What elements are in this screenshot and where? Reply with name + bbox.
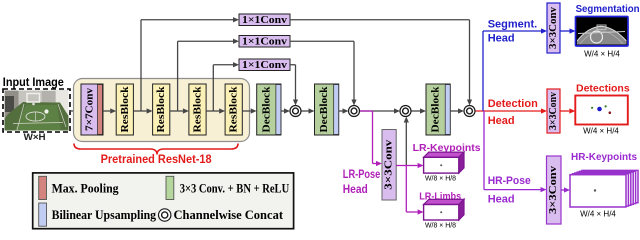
svg-text:W/4 × H/4: W/4 × H/4 — [580, 210, 616, 219]
svg-text:DecBlock: DecBlock — [318, 86, 330, 133]
svg-text:Head: Head — [343, 184, 368, 196]
svg-text:Head: Head — [488, 33, 515, 45]
svg-text:Pretrained ResNet-18: Pretrained ResNet-18 — [101, 154, 213, 166]
svg-text:HR-Pose: HR-Pose — [488, 175, 531, 187]
svg-text:W/4 × H/4: W/4 × H/4 — [584, 50, 620, 59]
svg-text:W/4 × H/4: W/4 × H/4 — [583, 126, 619, 135]
svg-text:HR-Keypoints: HR-Keypoints — [571, 151, 637, 163]
svg-text:Segmentation: Segmentation — [576, 3, 640, 15]
svg-text:DecBlock: DecBlock — [260, 86, 272, 133]
svg-text:ResBlock: ResBlock — [155, 86, 167, 133]
svg-text:7×7Conv: 7×7Conv — [84, 88, 96, 131]
svg-text:ResBlock: ResBlock — [228, 86, 240, 133]
svg-text:1×1Conv: 1×1Conv — [242, 15, 288, 26]
svg-text:Channelwise Concat: Channelwise Concat — [174, 207, 284, 222]
svg-text:ResBlock: ResBlock — [192, 86, 204, 133]
svg-text:Head: Head — [488, 194, 515, 206]
svg-text:Detections: Detections — [576, 83, 630, 95]
svg-text:W/8 × H/8: W/8 × H/8 — [425, 174, 456, 183]
svg-text:3×3Conv: 3×3Conv — [384, 139, 395, 190]
svg-text:Max. Pooling: Max. Pooling — [52, 181, 119, 196]
svg-text:DecBlock: DecBlock — [430, 86, 442, 133]
svg-text:Segment.: Segment. — [488, 19, 538, 31]
svg-text:Input Image: Input Image — [3, 77, 64, 89]
svg-text:3×3Conv: 3×3Conv — [548, 92, 559, 130]
svg-text:Head: Head — [488, 115, 515, 127]
svg-text:Detection: Detection — [488, 98, 538, 110]
svg-text:W×H: W×H — [24, 132, 46, 142]
svg-text:Bilinear Upsampling: Bilinear Upsampling — [52, 207, 157, 222]
svg-text:ResBlock: ResBlock — [119, 86, 131, 133]
svg-text:3×3 Conv. + BN + ReLU: 3×3 Conv. + BN + ReLU — [180, 181, 290, 196]
svg-text:3×3Conv: 3×3Conv — [548, 165, 559, 214]
svg-text:W/8 × H/8: W/8 × H/8 — [425, 221, 456, 230]
svg-text:1×1Conv: 1×1Conv — [242, 60, 288, 71]
svg-text:LR-Pose: LR-Pose — [343, 169, 381, 181]
svg-text:3×3Conv: 3×3Conv — [548, 6, 559, 49]
svg-text:1×1Conv: 1×1Conv — [242, 36, 288, 47]
